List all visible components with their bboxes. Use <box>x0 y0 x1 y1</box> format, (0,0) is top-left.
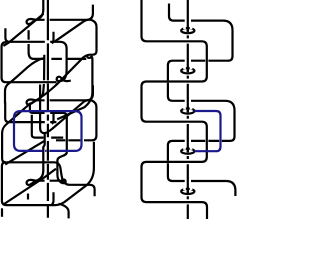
wire: course 1 tick above F-line <box>28 30 30 40</box>
wire: c0 F-line + tick + hook-curl + D2' diagonal merging into right leg <box>29 44 87 80</box>
wire: bottom junction branch to x=68.6 <box>59 204 69 219</box>
wire: diagonal D1 (junction beta1 up to alpha0 in-vert) <box>3 14 43 46</box>
node: wrap ellipse E3 <box>181 106 194 113</box>
wire: course 2 loop top line L2 + stub <box>34 85 93 100</box>
wire: course 3 beta curl (tick + wrap) <box>52 112 54 124</box>
wire: course 0 loop top line L0 <box>34 5 93 20</box>
wire: chain B1 end (dive through curl to 184.8 line + stub) <box>60 167 95 197</box>
wire: course 3 beta L'-line <box>9 121 56 123</box>
wire: course 1 bottom line (y=82.2) + left leg up to junction <box>2 42 57 82</box>
wire: diagonal D1'' (bottom junction up-right) <box>4 169 56 204</box>
course 2: alpha pigtail curl + in-vertical <box>27 84 44 104</box>
wire: course 2 E-line from curl tail + right leg x=66.8 + s-bend + wrap curl at (61,181) <box>30 104 67 183</box>
wire: blue highlighted loop E3-E4 <box>194 111 220 151</box>
wire: course 1 beta L'-line <box>6 41 45 43</box>
wire: loop thread top U and first loop <box>168 4 236 197</box>
wire: course 2 mid vertical + F-line <box>32 115 63 138</box>
wire: course 2 tick at F-line <box>43 134 44 148</box>
wire: course 1 beta curl (tick + wrap) <box>52 32 54 44</box>
wire: diagonal from F-junction down-left to 82-line corner <box>5 58 45 104</box>
wire: course 4 small tick <box>28 192 54 204</box>
course 0: alpha pigtail curl + in-vertical <box>27 0 44 24</box>
node: wrap ellipse E1 <box>181 26 194 33</box>
node: wrap ellipse E2 <box>181 66 194 73</box>
node: wrap ellipse E4 <box>181 147 194 154</box>
wire: course 4 right stub x=93.9 + diagonal down to bottom junction <box>2 142 94 205</box>
wire: standing vertical V1 (broken at even-course lines) <box>47 0 49 218</box>
wire: warp zigzag thread <box>142 0 208 219</box>
wire: diagonal D2'-c3 mirrored <box>5 141 45 165</box>
wire: diagonal D1prime merging into left long leg down to 162-line <box>2 103 31 163</box>
wire: course 1 hook stub <box>5 28 8 41</box>
wire: chain P2 (c2 loop rect + curved diagonal from x=40 vert) <box>40 85 96 141</box>
course 4: alpha pigtail curl + in-vertical <box>27 147 44 185</box>
wire: through-thread arc+diagonal under curl (c2 pigtail up to x=96.5) <box>32 55 89 103</box>
wire: chain P1 (c0 diagonal + right leg x=96.5 full + down diagonal to c3 tick) <box>55 20 96 120</box>
wire: course 3/4 line y=162.3 diving SE through wrap curl (B1 chain start) <box>6 162 60 166</box>
wire: course 4 loop top line L4 feeding beta curl <box>34 179 61 182</box>
wire: blue highlight rounded rect (left) <box>14 111 82 151</box>
wire: bottom-left truncated leg tick <box>1 208 3 217</box>
wire: course 3 hook stub <box>5 103 8 123</box>
wire: center standing line (dashed at ellipses) <box>187 0 189 219</box>
node: wrap ellipse E5 <box>181 187 194 194</box>
wire: x=58.2 vertical into curl-B at (63.3,80.8) exiting right <box>50 42 71 81</box>
